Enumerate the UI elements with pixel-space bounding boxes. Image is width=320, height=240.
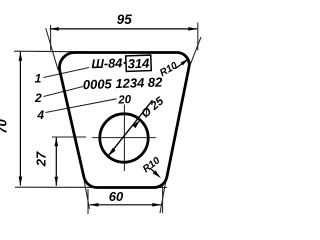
svg-text:R10: R10 — [158, 60, 180, 79]
svg-text:1: 1 — [35, 71, 42, 85]
svg-text:2: 2 — [34, 91, 42, 105]
svg-text:Ш-84·: Ш-84· — [91, 55, 127, 71]
svg-text:95: 95 — [117, 12, 133, 27]
svg-text:R10: R10 — [141, 155, 163, 175]
svg-text:Ø 25: Ø 25 — [139, 95, 166, 121]
svg-text:27: 27 — [33, 151, 48, 167]
svg-text:4: 4 — [36, 108, 44, 122]
svg-text:60: 60 — [109, 189, 124, 204]
svg-text:70: 70 — [0, 119, 9, 134]
svg-text:20: 20 — [117, 94, 132, 107]
svg-text:314: 314 — [127, 56, 150, 72]
svg-text:0005 1234 82: 0005 1234 82 — [83, 75, 164, 93]
